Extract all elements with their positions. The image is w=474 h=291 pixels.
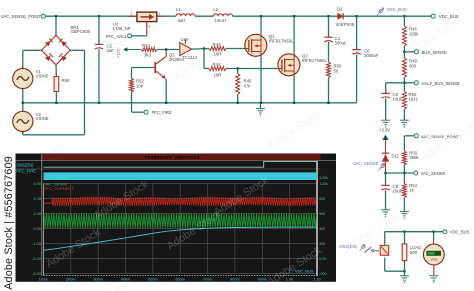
svg-text:300m: 300m xyxy=(93,278,103,282)
svg-text:47k: 47k xyxy=(244,83,252,88)
svg-text:330uF: 330uF xyxy=(335,41,348,46)
svg-text:700m: 700m xyxy=(203,278,213,282)
svg-text:40EPS08: 40EPS08 xyxy=(336,22,355,27)
svg-text:-2.00: -2.00 xyxy=(32,256,42,261)
svg-text:BUS_SENSE: BUS_SENSE xyxy=(422,50,447,55)
svg-text:Adobe Stock | #556767609: Adobe Stock | #556767609 xyxy=(3,156,15,290)
svg-text:400: 400 xyxy=(319,227,325,231)
svg-text:LT36_NP: LT36_NP xyxy=(113,26,131,31)
svg-text:+: + xyxy=(429,243,431,247)
svg-text:600m: 600m xyxy=(175,278,185,282)
svg-text:D2: D2 xyxy=(337,7,343,12)
svg-text:VDC_BUS: VDC_BUS xyxy=(387,7,407,12)
svg-text:R60: R60 xyxy=(62,78,70,83)
svg-text:800m: 800m xyxy=(230,278,240,282)
svg-text:R53: R53 xyxy=(142,43,150,48)
svg-text:VSINE: VSINE xyxy=(36,116,49,121)
svg-text:1.10: 1.10 xyxy=(313,278,320,282)
svg-text:D11: D11 xyxy=(392,153,400,158)
svg-text:2000uF: 2000uF xyxy=(364,53,379,58)
svg-text:U10: U10 xyxy=(181,37,189,42)
svg-text:PFC_CURRENT: PFC_CURRENT xyxy=(45,186,75,191)
svg-text:VSINE: VSINE xyxy=(36,73,49,78)
svg-text:3.00: 3.00 xyxy=(33,181,42,186)
svg-text:10R: 10R xyxy=(214,73,222,78)
svg-text:VAC_SENSE: VAC_SENSE xyxy=(353,161,379,166)
svg-text:0.00: 0.00 xyxy=(319,257,326,261)
svg-text:-1.00: -1.00 xyxy=(32,241,42,246)
svg-text:VAC_SENSE: VAC_SENSE xyxy=(421,171,446,176)
svg-text:50: 50 xyxy=(334,68,339,73)
svg-text:Volts: Volts xyxy=(430,257,438,261)
svg-text:100m: 100m xyxy=(39,278,49,282)
svg-text:10mH: 10mH xyxy=(215,18,226,23)
svg-text:1.00: 1.00 xyxy=(33,211,42,216)
svg-text:L1: L1 xyxy=(176,7,181,12)
svg-text:PFC_FIRE: PFC_FIRE xyxy=(152,110,172,115)
svg-text:1.00k: 1.00k xyxy=(319,176,328,180)
svg-text:-200: -200 xyxy=(319,272,326,276)
svg-text:680: 680 xyxy=(409,63,417,68)
svg-text:R44: R44 xyxy=(213,62,221,67)
svg-text:IRFB17N50L: IRFB17N50L xyxy=(269,38,294,43)
svg-text:2.00: 2.00 xyxy=(33,196,42,201)
svg-text:180k: 180k xyxy=(409,31,419,36)
svg-text:0.00: 0.00 xyxy=(33,226,42,231)
svg-text:-3.00: -3.00 xyxy=(32,271,42,276)
svg-text:L2: L2 xyxy=(213,7,218,12)
svg-text:3uH: 3uH xyxy=(178,18,186,23)
svg-text:1: 1 xyxy=(131,12,133,16)
svg-text:200m: 200m xyxy=(66,278,76,282)
svg-text:10k: 10k xyxy=(136,83,144,88)
svg-text:10uF: 10uF xyxy=(393,189,403,194)
svg-text:10uF: 10uF xyxy=(393,97,403,102)
svg-text:HALF_BUS_SENSE: HALF_BUS_SENSE xyxy=(422,81,460,86)
svg-text:600: 600 xyxy=(319,197,325,201)
svg-text:2: 2 xyxy=(159,12,161,16)
svg-text:TRANSIENT ANALYSIS: TRANSIENT ANALYSIS xyxy=(144,155,199,161)
svg-text:VAC_SENSE_POINT: VAC_SENSE_POINT xyxy=(1,14,41,19)
svg-text:+3.3V: +3.3V xyxy=(379,128,390,133)
svg-text:500m: 500m xyxy=(148,278,158,282)
svg-text:380k: 380k xyxy=(409,155,419,160)
svg-text:2N3904: 2N3904 xyxy=(169,57,185,62)
svg-text:500: 500 xyxy=(319,212,325,216)
svg-text:300: 300 xyxy=(319,242,325,246)
svg-text:GBPC608: GBPC608 xyxy=(71,29,91,34)
svg-text:VDC_BUS: VDC_BUS xyxy=(450,230,470,235)
svg-text:3k3: 3k3 xyxy=(144,53,152,58)
svg-text:600: 600 xyxy=(410,250,418,255)
svg-text:1.20k: 1.20k xyxy=(319,182,328,186)
svg-text:IRFB17N50L: IRFB17N50L xyxy=(302,58,327,63)
svg-text:1k31: 1k31 xyxy=(409,97,419,102)
svg-text:3: 3 xyxy=(149,25,151,29)
